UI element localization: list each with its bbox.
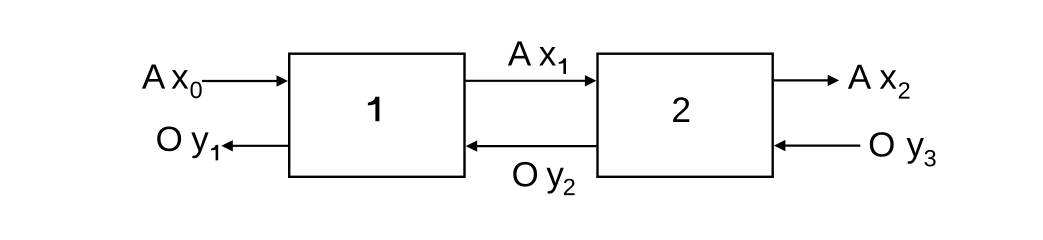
label 1 <box>368 97 380 122</box>
wire y3 input <box>785 145 860 147</box>
label 2 <box>673 97 689 122</box>
arrowhead x2 <box>828 75 840 86</box>
arrowhead y3 <box>774 140 786 151</box>
label A x2 <box>848 65 910 99</box>
wire y2 between blocks <box>477 145 597 147</box>
arrowhead y2 <box>466 140 478 151</box>
label A x1 <box>508 41 566 74</box>
wire x2 output <box>774 79 829 81</box>
wire x1 between blocks <box>466 80 586 82</box>
label O y2 <box>513 162 574 195</box>
block 1 <box>289 54 464 177</box>
label A x0 <box>142 65 202 99</box>
arrowhead x1 <box>585 75 597 86</box>
wire x0 input <box>202 80 278 82</box>
label O y1 <box>157 127 218 161</box>
wire y1 output <box>232 145 289 147</box>
arrowhead y1 <box>221 140 233 151</box>
label O y3 <box>870 132 936 166</box>
block 2 <box>598 54 773 177</box>
arrowhead x0 <box>277 75 289 86</box>
